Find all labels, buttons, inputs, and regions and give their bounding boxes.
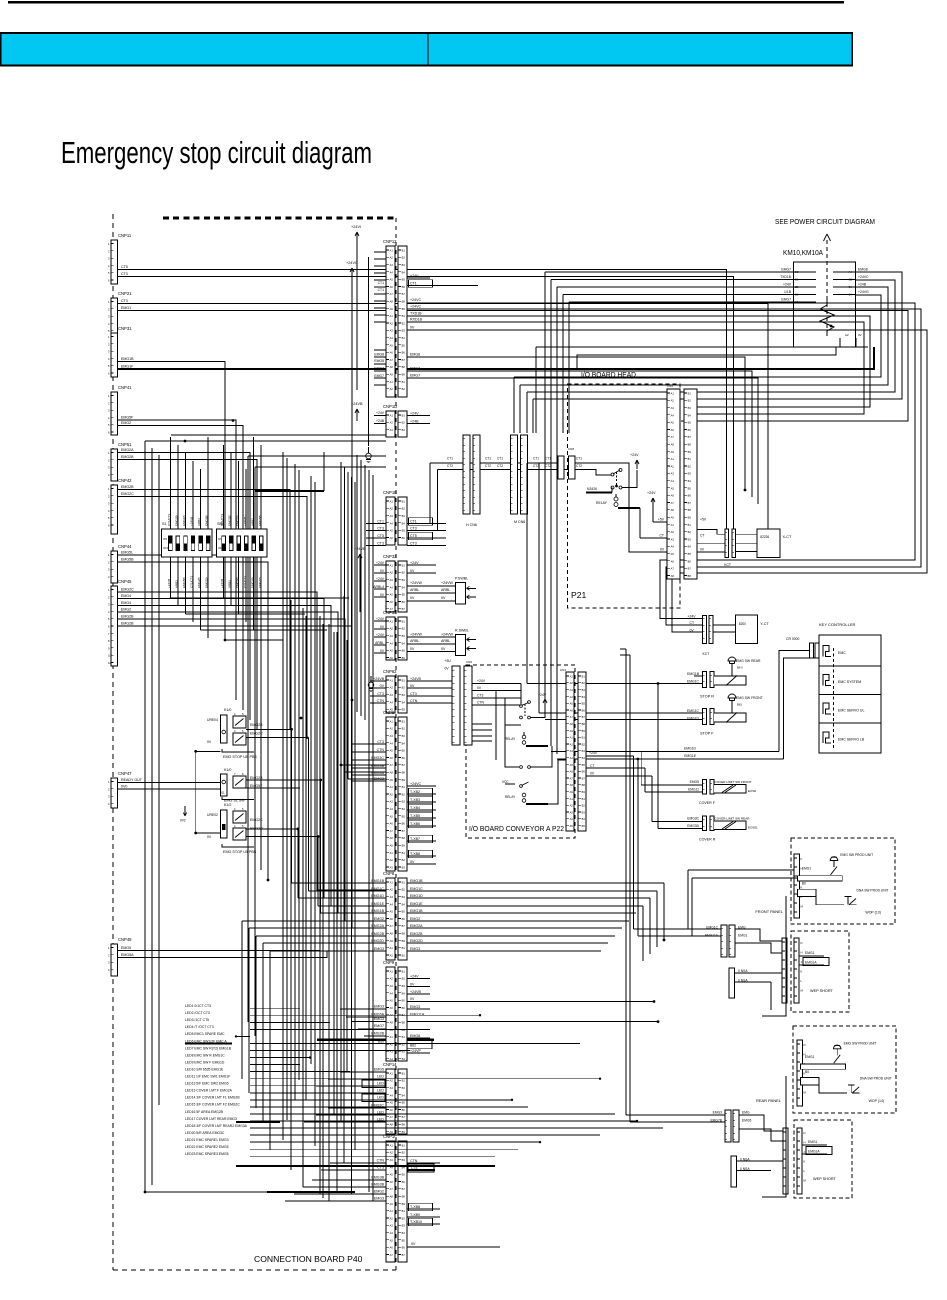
svg-text:+5V: +5V bbox=[658, 518, 665, 522]
svg-text:EMG1E: EMG1E bbox=[410, 902, 423, 906]
svg-text:A5: A5 bbox=[390, 910, 394, 914]
svg-text:LED7 EMC SW R(Y2) EMG1B: LED7 EMC SW R(Y2) EMG1B bbox=[185, 1046, 232, 1050]
svg-text:T-XB9: T-XB9 bbox=[410, 1213, 420, 1217]
svg-text:A8: A8 bbox=[390, 1021, 394, 1025]
wire 0V bottom bbox=[407, 1246, 500, 1248]
svg-text:+24V: +24V bbox=[688, 615, 697, 619]
svg-text:+24V: +24V bbox=[376, 633, 385, 637]
svg-text:A9: A9 bbox=[570, 729, 574, 733]
front panel strip bbox=[794, 854, 800, 918]
svg-text:EMG2C: EMG2C bbox=[121, 588, 134, 592]
svg-text:EOS0: EOS0 bbox=[748, 789, 756, 793]
svg-text:A3: A3 bbox=[390, 428, 394, 432]
svg-text:1: 1 bbox=[108, 335, 110, 339]
svg-text:EMG5L: EMG5L bbox=[121, 551, 133, 555]
wire nest d bbox=[533, 272, 902, 399]
svg-text:A3: A3 bbox=[390, 1158, 394, 1162]
svg-text:A1: A1 bbox=[570, 674, 574, 678]
svg-text:CNP8: CNP8 bbox=[383, 871, 395, 876]
svg-text:A7: A7 bbox=[390, 763, 394, 767]
KM10 zigzag bbox=[820, 300, 834, 336]
wire EMG5 from CNP48 bbox=[118, 950, 320, 952]
svg-text:B8: B8 bbox=[402, 1123, 406, 1127]
svg-text:B3: B3 bbox=[402, 800, 406, 804]
svg-text:A5: A5 bbox=[390, 749, 394, 753]
svg-text:L: L bbox=[801, 979, 803, 983]
svg-text:D: D bbox=[804, 1043, 806, 1047]
svg-text:B2: B2 bbox=[688, 530, 692, 534]
svg-text:A3: A3 bbox=[390, 984, 394, 988]
svg-text:A6: A6 bbox=[570, 770, 574, 774]
svg-text:0V: 0V bbox=[690, 629, 695, 633]
svg-text:A7: A7 bbox=[570, 776, 574, 780]
svg-text:EMG2B: EMG2B bbox=[371, 932, 384, 936]
front panel emg button bbox=[830, 857, 838, 861]
svg-text:B5: B5 bbox=[582, 763, 586, 767]
svg-text:CT1: CT1 bbox=[497, 457, 503, 461]
svg-text:1: 1 bbox=[108, 451, 110, 455]
rear panel feeds bbox=[626, 1114, 725, 1116]
svg-text:CT1/CT3: CT1/CT3 bbox=[167, 514, 171, 527]
svg-text:B6: B6 bbox=[402, 351, 406, 355]
CNP6 left stubs bbox=[352, 743, 386, 745]
svg-text:B1: B1 bbox=[402, 946, 406, 950]
svg-text:B4: B4 bbox=[402, 336, 406, 340]
wire EMG5B from CNP44 bbox=[118, 562, 268, 880]
svg-text:EMG5B: EMG5B bbox=[182, 577, 186, 588]
svg-text:EMG5F: EMG5F bbox=[121, 416, 134, 420]
svg-text:+24VG: +24VG bbox=[858, 290, 869, 294]
svg-text:M: M bbox=[801, 905, 804, 909]
svg-text:3: 3 bbox=[108, 603, 110, 607]
svg-text:LED4 /T /OCT CT3: LED4 /T /OCT CT3 bbox=[185, 1025, 214, 1029]
svg-text:CT3: CT3 bbox=[377, 692, 384, 696]
svg-text:EMG3: EMG3 bbox=[374, 1005, 384, 1009]
svg-text:B7: B7 bbox=[402, 924, 406, 928]
svg-text:EMG8: EMG8 bbox=[374, 359, 384, 363]
vertical wires to CNP6 pins bbox=[356, 455, 358, 712]
svg-text:A3: A3 bbox=[671, 472, 675, 476]
svg-text:ARBL: ARBL bbox=[441, 588, 450, 592]
svg-text:2: 2 bbox=[108, 401, 110, 405]
svg-text:2: 2 bbox=[108, 595, 110, 599]
svg-text:A6: A6 bbox=[390, 756, 394, 760]
svg-text:WEP SHORT: WEP SHORT bbox=[810, 989, 834, 993]
svg-text:LED22 EMC SPARE2 EMG5: LED22 EMC SPARE2 EMG5 bbox=[185, 1145, 229, 1149]
X-CT box bbox=[735, 533, 757, 535]
connection board outline bottom bbox=[113, 1269, 396, 1271]
wire CT5 from CNP11 bbox=[118, 270, 727, 530]
ground a bbox=[368, 447, 370, 453]
svg-text:B6: B6 bbox=[402, 1246, 406, 1250]
svg-text:KCT: KCT bbox=[724, 563, 731, 567]
svg-text:EMG2: EMG2 bbox=[374, 917, 384, 921]
svg-text:B1: B1 bbox=[402, 1071, 406, 1075]
svg-text:CT: CT bbox=[590, 764, 595, 768]
svg-text:CTN: CTN bbox=[377, 748, 385, 752]
svg-text:T-XB4: T-XB4 bbox=[410, 806, 420, 810]
svg-text:B3: B3 bbox=[402, 895, 406, 899]
svg-text:B6: B6 bbox=[402, 1180, 406, 1184]
svg-text:CT2: CT2 bbox=[545, 464, 551, 468]
svg-text:EMG4: EMG4 bbox=[121, 594, 131, 598]
svg-text:K1/2: K1/2 bbox=[224, 803, 231, 807]
svg-text:CTN: CTN bbox=[410, 1159, 418, 1163]
svg-text:B3: B3 bbox=[688, 472, 692, 476]
connection board outline top bbox=[163, 217, 396, 220]
WEP2 box bbox=[794, 1120, 852, 1198]
svg-text:A8: A8 bbox=[570, 722, 574, 726]
wire +24VC b bbox=[407, 309, 921, 625]
svg-text:A2: A2 bbox=[390, 977, 394, 981]
svg-text:B3: B3 bbox=[402, 734, 406, 738]
svg-text:B2: B2 bbox=[402, 507, 406, 511]
svg-text:CT3: CT3 bbox=[410, 526, 417, 530]
svg-text:EMG1B: EMG1B bbox=[371, 879, 384, 883]
svg-text:EMG1F: EMG1F bbox=[121, 365, 134, 369]
svg-text:0V: 0V bbox=[410, 982, 415, 986]
svg-text:A8: A8 bbox=[671, 508, 675, 512]
svg-text:A7: A7 bbox=[570, 715, 574, 719]
svg-text:B1: B1 bbox=[582, 797, 586, 801]
svg-text:A1: A1 bbox=[671, 523, 675, 527]
connector KCT1 bbox=[725, 529, 729, 558]
wire READY OUT from CNP47 bbox=[118, 782, 221, 784]
svg-text:B9: B9 bbox=[688, 516, 692, 520]
svg-text:F: F bbox=[801, 857, 803, 861]
svg-text:EMG SW PROD UNIT: EMG SW PROD UNIT bbox=[844, 1041, 877, 1045]
svg-text:LED21 EMC SPARE1 EMG3: LED21 EMC SPARE1 EMG3 bbox=[185, 1138, 229, 1142]
svg-text:5: 5 bbox=[108, 617, 110, 621]
svg-text:EMG3: EMG3 bbox=[374, 1196, 384, 1200]
svg-text:CNP9: CNP9 bbox=[383, 960, 395, 965]
CNP9 rows bbox=[407, 978, 430, 980]
svg-text:EMG5B: EMG5B bbox=[121, 558, 134, 562]
svg-text:A8: A8 bbox=[390, 1123, 394, 1127]
svg-text:B1: B1 bbox=[402, 880, 406, 884]
connector small pre-P21 bbox=[558, 456, 564, 479]
svg-text:B4: B4 bbox=[688, 545, 692, 549]
svg-text:B8: B8 bbox=[688, 508, 692, 512]
svg-text:B8: B8 bbox=[402, 365, 406, 369]
svg-text:7: 7 bbox=[108, 632, 110, 636]
svg-text:EMG2: EMG2 bbox=[374, 1189, 384, 1193]
CNP12 left stubs bbox=[374, 251, 386, 253]
svg-text:+24VC: +24VC bbox=[410, 305, 421, 309]
svg-text:5: 5 bbox=[108, 516, 110, 520]
svg-text:TXD1B: TXD1B bbox=[780, 275, 792, 279]
svg-text:RELAY: RELAY bbox=[596, 501, 608, 505]
svg-text:H CN8: H CN8 bbox=[466, 523, 477, 527]
svg-text:EMG1B: EMG1B bbox=[687, 672, 700, 676]
wire EMG1B from CNP31 bbox=[118, 362, 283, 641]
svg-text:EMG2B: EMG2B bbox=[228, 515, 232, 526]
svg-text:+24V: +24V bbox=[538, 693, 547, 697]
svg-text:B4: B4 bbox=[402, 807, 406, 811]
svg-text:CT3: CT3 bbox=[477, 694, 484, 698]
svg-text:+24V: +24V bbox=[376, 617, 385, 621]
svg-text:A4: A4 bbox=[671, 479, 675, 483]
svg-text:A9: A9 bbox=[671, 516, 675, 520]
wire +24VC a bbox=[407, 303, 915, 619]
svg-text:EMG2B: EMG2B bbox=[121, 622, 134, 626]
svg-text:2: 2 bbox=[108, 249, 110, 253]
wire EMG2C from CNP42 bbox=[118, 497, 307, 738]
svg-text:6: 6 bbox=[108, 372, 110, 376]
svg-text:CN6: CN6 bbox=[466, 660, 472, 664]
svg-text:EMG3B: EMG3B bbox=[371, 1182, 384, 1186]
svg-text:+24VB: +24VB bbox=[351, 402, 363, 406]
svg-text:LED5 EMC1 SPARE EMC: LED5 EMC1 SPARE EMC bbox=[185, 1032, 225, 1036]
svg-text:ARBL: ARBL bbox=[375, 641, 384, 645]
svg-text:B5: B5 bbox=[402, 649, 406, 653]
svg-text:A2: A2 bbox=[570, 681, 574, 685]
Y-CT box bbox=[713, 624, 735, 626]
svg-text:B9: B9 bbox=[402, 1202, 406, 1206]
svg-text:+24B: +24B bbox=[858, 283, 867, 287]
svg-text:B4: B4 bbox=[582, 756, 586, 760]
svg-text:CNP47: CNP47 bbox=[118, 771, 132, 776]
svg-text:A1: A1 bbox=[390, 969, 394, 973]
svg-text:0V: 0V bbox=[410, 647, 415, 651]
svg-text:D: D bbox=[801, 941, 803, 945]
svg-text:B2: B2 bbox=[402, 792, 406, 796]
svg-text:B62: B62 bbox=[410, 1044, 416, 1048]
svg-text:A2: A2 bbox=[390, 321, 394, 325]
svg-text:A4: A4 bbox=[390, 585, 394, 589]
wire EMG5A from CNP48 bbox=[118, 951, 386, 958]
svg-text:0V: 0V bbox=[477, 686, 482, 690]
svg-text:1: 1 bbox=[108, 780, 110, 784]
svg-text:CT1/CT3: CT1/CT3 bbox=[220, 514, 224, 527]
svg-text:3: 3 bbox=[108, 350, 110, 354]
svg-text:A5: A5 bbox=[390, 278, 394, 282]
svg-text:B3: B3 bbox=[402, 693, 406, 697]
svg-text:EMG: EMG bbox=[742, 1111, 750, 1115]
svg-text:EMG1C: EMG1C bbox=[410, 887, 423, 891]
svg-text:0 NSA: 0 NSA bbox=[738, 969, 748, 973]
svg-text:CNP6: CNP6 bbox=[383, 710, 395, 715]
svg-text:A3: A3 bbox=[390, 865, 394, 869]
svg-text:A6: A6 bbox=[671, 559, 675, 563]
svg-text:0V: 0V bbox=[410, 569, 415, 573]
wire EMG1 from CNP21 bbox=[118, 311, 908, 422]
svg-text:4: 4 bbox=[108, 357, 110, 361]
svg-text:B5: B5 bbox=[688, 552, 692, 556]
wire EMG5F from CNP41 bbox=[118, 420, 236, 700]
svg-text:B6: B6 bbox=[402, 536, 406, 540]
front panel bar EMG1A bbox=[797, 876, 842, 881]
svg-text:LED1 0/1CT CT3: LED1 0/1CT CT3 bbox=[185, 1004, 211, 1008]
svg-text:EMG5: EMG5 bbox=[374, 1067, 384, 1071]
svg-text:4: 4 bbox=[108, 264, 110, 268]
svg-text:EMG1D: EMG1D bbox=[684, 747, 697, 751]
svg-text:A2: A2 bbox=[390, 256, 394, 260]
svg-text:+24VB: +24VB bbox=[410, 990, 421, 994]
svg-text:EMG5B: EMG5B bbox=[258, 515, 262, 526]
svg-text:EMG11A: EMG11A bbox=[705, 934, 719, 938]
svg-text:A8: A8 bbox=[390, 932, 394, 936]
svg-text:A2: A2 bbox=[671, 464, 675, 468]
svg-text:B0: B0 bbox=[802, 882, 806, 886]
svg-text:CNP33: CNP33 bbox=[383, 610, 397, 615]
svg-text:B3: B3 bbox=[582, 810, 586, 814]
wire EMG8 bbox=[407, 357, 745, 490]
connector M CN8 bbox=[511, 435, 518, 514]
connector rear keyboard pair bbox=[725, 1110, 731, 1142]
svg-text:B2: B2 bbox=[582, 804, 586, 808]
svg-text:K1/0: K1/0 bbox=[224, 768, 231, 772]
NSA strip 2 bbox=[731, 1156, 737, 1187]
chain wires CT bbox=[430, 462, 558, 464]
svg-text:B2: B2 bbox=[402, 256, 406, 260]
svg-text:A6: A6 bbox=[390, 1108, 394, 1112]
svg-text:ARB3: ARB3 bbox=[228, 580, 232, 588]
svg-text:T-XB3: T-XB3 bbox=[410, 798, 420, 802]
svg-text:B3: B3 bbox=[402, 865, 406, 869]
svg-text:1: 1 bbox=[108, 394, 110, 398]
svg-text:S1: S1 bbox=[162, 522, 167, 526]
svg-text:B6 0: B6 0 bbox=[737, 666, 743, 670]
wire EMG1F thick from CNP31 bbox=[118, 347, 874, 369]
svg-text:URE04: URE04 bbox=[207, 718, 218, 722]
svg-text:B6: B6 bbox=[402, 600, 406, 604]
KM10 dashed riser bbox=[826, 240, 828, 338]
connector front keyboard pair bbox=[721, 925, 727, 957]
svg-text:2: 2 bbox=[108, 953, 110, 957]
svg-text:+24V: +24V bbox=[376, 577, 385, 581]
svg-text:EMG1B: EMG1B bbox=[182, 515, 186, 526]
svg-text:EMG2D: EMG2D bbox=[410, 939, 423, 943]
svg-text:2: 2 bbox=[108, 560, 110, 564]
svg-text:B1: B1 bbox=[402, 563, 406, 567]
svg-text:EMG1B: EMG1B bbox=[258, 577, 262, 588]
wires to STOP R bbox=[694, 675, 703, 677]
contactor KM10 box bbox=[794, 262, 856, 347]
WEP1 strips bbox=[782, 938, 787, 1003]
svg-text:+24VW: +24VW bbox=[410, 581, 422, 585]
svg-text:LED8 EMC SW R EMG1C: LED8 EMC SW R EMG1C bbox=[185, 1053, 225, 1057]
svg-text:B6: B6 bbox=[402, 1006, 406, 1010]
svg-text:6: 6 bbox=[108, 524, 110, 528]
svg-text:B3: B3 bbox=[688, 406, 692, 410]
svg-text:CT1: CT1 bbox=[410, 519, 417, 523]
svg-text:DNA SW PROD UNIT: DNA SW PROD UNIT bbox=[860, 1077, 892, 1081]
svg-text:A8: A8 bbox=[390, 365, 394, 369]
svg-text:EMC SERVO UL: EMC SERVO UL bbox=[838, 709, 864, 713]
svg-text:B6: B6 bbox=[688, 559, 692, 563]
svg-text:EMG2B: EMG2B bbox=[121, 485, 134, 489]
svg-text:B0: B0 bbox=[805, 1070, 809, 1074]
svg-text:B2: B2 bbox=[402, 1079, 406, 1083]
svg-text:B5: B5 bbox=[688, 486, 692, 490]
CNP1C rows bbox=[330, 1162, 386, 1164]
svg-text:B8: B8 bbox=[402, 836, 406, 840]
svg-text:3: 3 bbox=[108, 466, 110, 470]
wire EMG7 a bbox=[407, 371, 752, 497]
svg-text:82226: 82226 bbox=[760, 535, 769, 539]
svg-text:EMG8: EMG8 bbox=[410, 1034, 420, 1038]
connector STOP R pair bbox=[703, 672, 707, 688]
svg-text:B4: B4 bbox=[402, 585, 406, 589]
svg-text:B9: B9 bbox=[402, 373, 406, 377]
svg-text:EMG1: EMG1 bbox=[805, 951, 815, 955]
svg-text:A2: A2 bbox=[671, 530, 675, 534]
svg-text:B5: B5 bbox=[402, 708, 406, 712]
svg-text:0V: 0V bbox=[858, 333, 862, 337]
svg-text:CNP45: CNP45 bbox=[118, 579, 132, 584]
svg-text:EMG2A: EMG2A bbox=[371, 924, 384, 928]
P21 switch bbox=[575, 463, 629, 468]
svg-text:B3: B3 bbox=[402, 1224, 406, 1228]
svg-text:A2: A2 bbox=[570, 742, 574, 746]
svg-text:B1: B1 bbox=[402, 499, 406, 503]
svg-text:K1/0: K1/0 bbox=[224, 708, 231, 712]
thick CT5 row bbox=[407, 1169, 435, 1171]
svg-text:B6: B6 bbox=[402, 822, 406, 826]
svg-text:A8: A8 bbox=[390, 771, 394, 775]
svg-text:EMG2B: EMG2B bbox=[197, 577, 201, 588]
svg-text:+24VB: +24VB bbox=[354, 547, 366, 551]
svg-text:A3: A3 bbox=[390, 578, 394, 582]
wires to STOP F bbox=[539, 712, 703, 714]
svg-text:8: 8 bbox=[108, 639, 110, 643]
svg-text:4: 4 bbox=[108, 322, 110, 326]
svg-text:A1: A1 bbox=[390, 499, 394, 503]
rear keyboard wires bbox=[739, 1115, 783, 1131]
svg-text:T-XB7: T-XB7 bbox=[410, 837, 420, 841]
svg-text:B9: B9 bbox=[402, 1028, 406, 1032]
svg-text:+24V: +24V bbox=[589, 751, 598, 755]
rear panel strip bbox=[797, 1040, 803, 1106]
svg-text:STOP F: STOP F bbox=[700, 732, 714, 736]
svg-text:+24VC: +24VC bbox=[410, 298, 421, 302]
svg-text:T-XB8: T-XB8 bbox=[410, 1205, 420, 1209]
svg-text:B7: B7 bbox=[582, 715, 586, 719]
svg-text:LED2 /OCT CT3: LED2 /OCT CT3 bbox=[185, 1011, 210, 1015]
svg-text:CT1/CT3: CT1/CT3 bbox=[243, 576, 247, 589]
svg-text:CNP44: CNP44 bbox=[118, 544, 132, 549]
svg-text:B7: B7 bbox=[402, 1187, 406, 1191]
svg-text:+24V: +24V bbox=[630, 453, 639, 457]
svg-text:B1: B1 bbox=[402, 785, 406, 789]
svg-text:B5: B5 bbox=[402, 999, 406, 1003]
emergency switch front bbox=[728, 694, 736, 698]
CNP8 staircase to relays bbox=[291, 729, 293, 883]
svg-text:3: 3 bbox=[108, 502, 110, 506]
svg-text:EMG1B: EMG1B bbox=[410, 909, 423, 913]
svg-text:+24V: +24V bbox=[376, 561, 385, 565]
CNP1D stubs bbox=[407, 415, 430, 417]
svg-text:B4: B4 bbox=[402, 741, 406, 745]
svg-text:A2: A2 bbox=[390, 888, 394, 892]
svg-text:B8: B8 bbox=[582, 783, 586, 787]
wire nest risers bbox=[513, 377, 515, 433]
svg-text:L: L bbox=[804, 1169, 806, 1173]
svg-text:LED: LED bbox=[377, 1088, 384, 1092]
svg-text:A4: A4 bbox=[570, 817, 574, 821]
svg-text:CT1/CT3: CT1/CT3 bbox=[190, 576, 194, 589]
svg-text:A7: A7 bbox=[671, 567, 675, 571]
svg-text:T-XB5: T-XB5 bbox=[410, 814, 420, 818]
svg-text:EMG8: EMG8 bbox=[410, 353, 420, 357]
svg-text:K: K bbox=[801, 970, 803, 974]
svg-text:M: M bbox=[801, 989, 804, 993]
svg-text:CT1: CT1 bbox=[576, 457, 582, 461]
wire nest c bbox=[527, 280, 895, 392]
svg-text:1: 1 bbox=[108, 588, 110, 592]
keyboard pair wires bbox=[634, 928, 722, 930]
